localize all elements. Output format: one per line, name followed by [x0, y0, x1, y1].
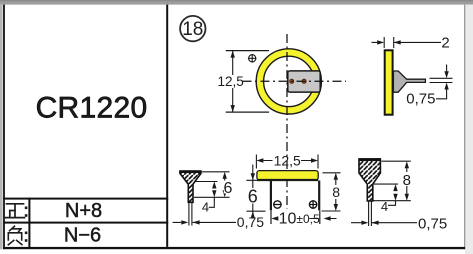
front view dimension 8: extension lines — [322, 173, 341, 211]
front view: left leg — [270, 181, 272, 211]
left pin dimension 4: dim line + leader + arrows — [209, 197, 215, 207]
left pin dimension 6: extension lines — [194, 172, 230, 198]
frame bottom border — [3, 247, 465, 249]
top view: battery ring outer — [260, 53, 318, 111]
right pin dimension 8: dim line + arrows — [406, 168, 408, 194]
svg-text:12,5: 12,5 — [274, 153, 301, 169]
left pin detail: head — [180, 171, 201, 202]
svg-text:18: 18 — [182, 19, 203, 40]
left pin dimension 6: dim line + arrows — [224, 179, 226, 191]
dimension 2: dim lines + arrows — [372, 41, 442, 43]
top view: weld dot left — [290, 79, 294, 83]
label 正 (positive) — [6, 204, 25, 218]
front view dimension 8: dim line + arrows — [335, 180, 337, 204]
right faint border — [464, 5, 465, 250]
table top line — [3, 198, 168, 200]
front view dimension 12,5: ticks — [256, 155, 318, 169]
top view: solder tab — [288, 71, 320, 92]
dimension 0,75 tab: dim line + arrows — [436, 65, 447, 99]
svg-text:0,75: 0,75 — [237, 214, 264, 230]
left pin dimension 6: text backing — [224, 181, 233, 194]
dimension 12,5 diameter: extension lines — [226, 51, 269, 113]
table column line — [28, 198, 30, 249]
svg-text:4: 4 — [202, 200, 209, 215]
top view: vertical centerline — [286, 34, 288, 209]
front view: cell bar — [257, 171, 318, 180]
front view dimension 10±0,5: ticks — [271, 211, 320, 224]
right pin detail: wire — [369, 201, 372, 226]
panel divider — [166, 5, 168, 247]
top view: horizontal centerline — [243, 80, 347, 82]
svg-text:8: 8 — [332, 184, 340, 200]
table middle line — [3, 222, 168, 224]
dimension 12,5 diameter: text backing — [219, 75, 243, 88]
front view dimension 6: text backing — [247, 189, 258, 203]
svg-text:12,5: 12,5 — [217, 74, 243, 89]
front view dimension 6: line, ticks, arrows — [252, 165, 254, 218]
front view dimension 10±0,5: arrows — [310, 218, 337, 220]
dimension 2: ticks — [384, 37, 394, 48]
front view dimension 12,5: dim line + arrows — [263, 160, 311, 162]
left gray strip — [0, 5, 3, 250]
svg-text:8: 8 — [403, 172, 411, 189]
front view: right leg — [318, 181, 320, 211]
svg-text:2: 2 — [441, 35, 449, 52]
svg-text:CR1220: CR1220 — [36, 92, 148, 125]
colon after 负 — [25, 232, 28, 235]
side view: cell — [385, 50, 393, 114]
svg-text:0,75: 0,75 — [406, 91, 435, 108]
top gray band — [0, 0, 473, 5]
right pin dimension 8: text backing — [402, 173, 411, 185]
svg-text:4: 4 — [381, 199, 388, 214]
right pin dimension 0,75: dim lines + arrows — [351, 222, 417, 224]
svg-text:0,75: 0,75 — [418, 216, 447, 233]
left pin dimension 0,75: dim lines + arrows — [173, 221, 236, 223]
dimension 12,5 diameter: dim line — [232, 51, 234, 113]
right gray strip — [465, 5, 473, 254]
top view: weld dot right — [302, 79, 306, 83]
svg-text:6: 6 — [248, 187, 258, 207]
svg-text:N+8: N+8 — [65, 200, 102, 222]
right pin dimension 4: extension line — [374, 183, 398, 185]
right pin dimension 4: dim line + leader + arrows — [388, 201, 396, 206]
right pin dimension 8: extension lines — [374, 161, 411, 201]
svg-text:N−6: N−6 — [64, 225, 101, 247]
polarity mark plus — [309, 200, 317, 208]
left pin detail: wire — [189, 202, 192, 225]
front view dimension 8: text backing — [332, 186, 341, 197]
datum symbol — [248, 54, 257, 63]
colon after 正 — [25, 207, 28, 210]
svg-text:10±0,5: 10±0,5 — [279, 210, 320, 227]
side view: tab — [393, 71, 425, 92]
frame left border — [3, 5, 5, 250]
right pin detail: head — [359, 159, 380, 201]
balloon 18 — [180, 16, 205, 41]
dimension 0,75 tab: extension lines — [430, 78, 453, 82]
polarity mark minus — [273, 201, 281, 208]
label 负 (negative) — [8, 226, 22, 245]
left pin dimension 4: extension line — [194, 181, 218, 183]
svg-text:6: 6 — [224, 180, 233, 197]
